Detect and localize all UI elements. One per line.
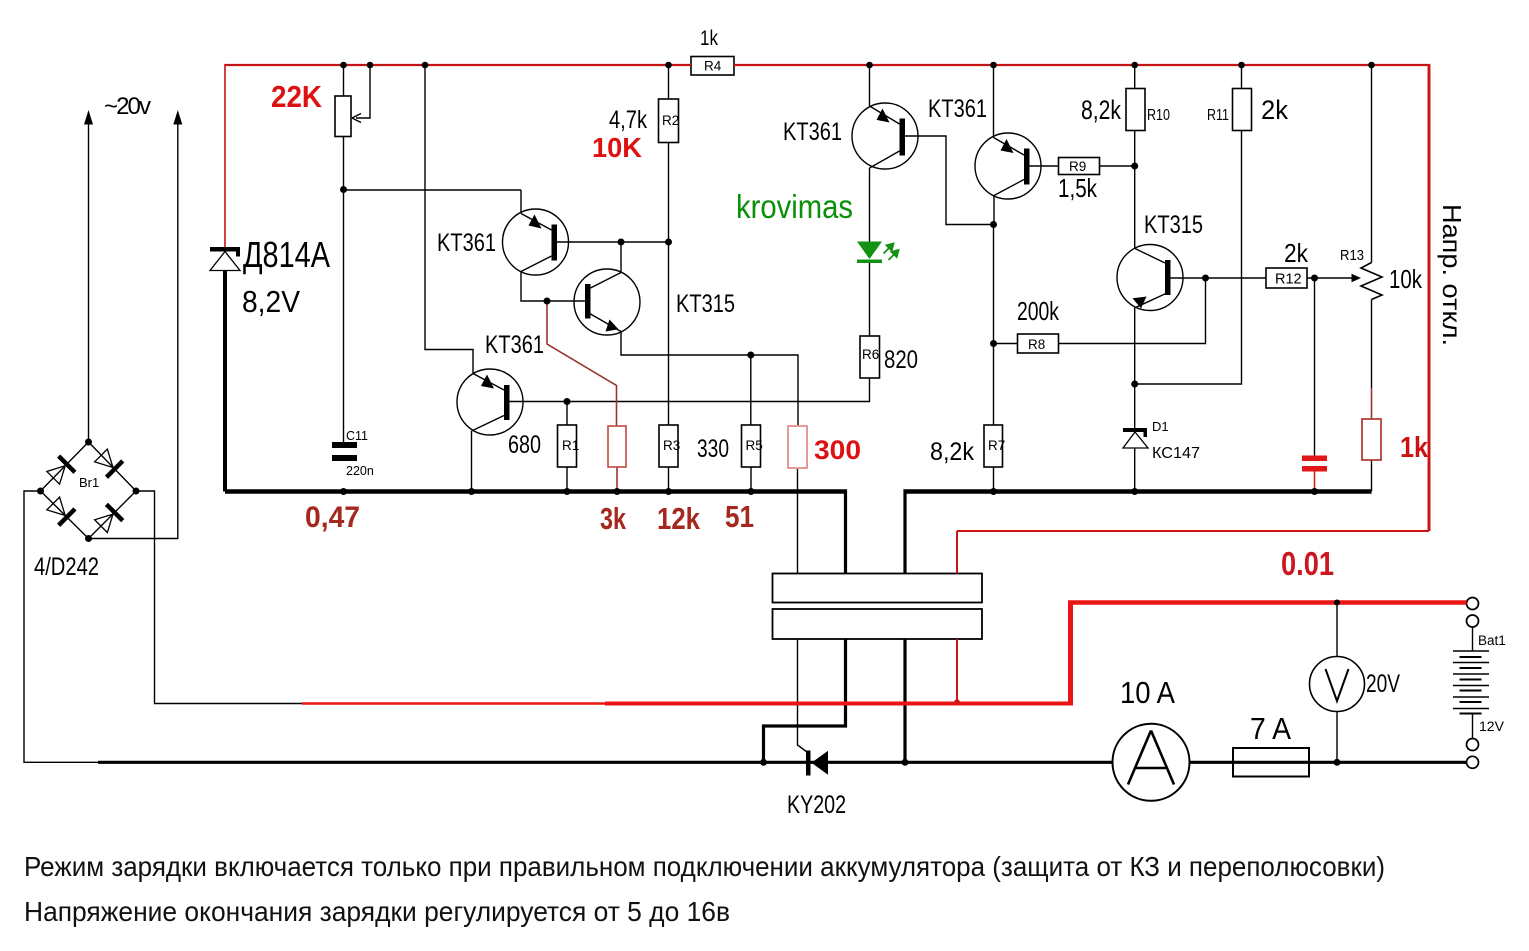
svg-text:R11: R11 xyxy=(1207,107,1229,124)
svg-text:R13: R13 xyxy=(1340,247,1364,264)
svg-text:D1: D1 xyxy=(1152,419,1169,434)
svg-text:0.01: 0.01 xyxy=(1281,545,1334,582)
svg-text:Br1: Br1 xyxy=(79,475,99,490)
svg-text:C11: C11 xyxy=(346,429,368,443)
svg-text:4,7k: 4,7k xyxy=(609,106,647,134)
svg-text:~20v: ~20v xyxy=(104,93,151,120)
svg-text:300: 300 xyxy=(814,435,861,465)
svg-text:330: 330 xyxy=(697,435,729,463)
svg-text:Напр. откл.: Напр. откл. xyxy=(1437,204,1467,346)
svg-text:3k: 3k xyxy=(600,501,627,536)
svg-text:R12: R12 xyxy=(1275,272,1302,288)
svg-text:R3: R3 xyxy=(663,438,680,453)
svg-text:R4: R4 xyxy=(704,59,722,74)
svg-text:KT361: KT361 xyxy=(437,229,496,257)
svg-text:krovimas: krovimas xyxy=(736,188,853,225)
svg-text:Д814А: Д814А xyxy=(243,234,330,275)
svg-text:12V: 12V xyxy=(1479,718,1505,734)
svg-text:22K: 22K xyxy=(271,79,323,114)
svg-text:8,2V: 8,2V xyxy=(242,284,300,319)
svg-text:KT361: KT361 xyxy=(485,331,544,359)
svg-text:1,5k: 1,5k xyxy=(1058,173,1098,203)
svg-text:Bat1: Bat1 xyxy=(1478,633,1506,648)
svg-text:20V: 20V xyxy=(1366,670,1400,698)
svg-text:7 A: 7 A xyxy=(1250,711,1291,746)
svg-text:KT315: KT315 xyxy=(1144,211,1203,239)
svg-text:10K: 10K xyxy=(592,132,642,163)
svg-text:8,2k: 8,2k xyxy=(1081,95,1121,125)
svg-text:2k: 2k xyxy=(1261,95,1288,125)
svg-text:51: 51 xyxy=(725,499,754,534)
svg-text:R10: R10 xyxy=(1147,107,1170,124)
svg-text:Напряжение окончания зарядки р: Напряжение окончания зарядки регулируетс… xyxy=(24,896,730,927)
svg-text:КС147: КС147 xyxy=(1152,445,1200,462)
svg-text:1k: 1k xyxy=(1400,432,1429,464)
svg-text:0,47: 0,47 xyxy=(305,501,360,534)
svg-text:R1: R1 xyxy=(562,438,579,453)
svg-text:R5: R5 xyxy=(746,438,763,453)
svg-text:KT361: KT361 xyxy=(783,118,842,146)
svg-text:10k: 10k xyxy=(1389,264,1423,294)
svg-text:12k: 12k xyxy=(657,501,701,536)
svg-text:KY202: KY202 xyxy=(787,791,846,819)
svg-text:220n: 220n xyxy=(346,464,374,478)
svg-text:R7: R7 xyxy=(988,438,1005,453)
svg-text:R2: R2 xyxy=(662,113,679,128)
svg-text:4/D242: 4/D242 xyxy=(34,553,99,581)
svg-text:200k: 200k xyxy=(1017,296,1060,326)
svg-text:KT361: KT361 xyxy=(928,95,987,123)
svg-text:Режим зарядки включается тольк: Режим зарядки включается только при прав… xyxy=(24,851,1385,882)
svg-text:R9: R9 xyxy=(1069,159,1086,174)
svg-text:10 A: 10 A xyxy=(1120,675,1175,710)
svg-text:1k: 1k xyxy=(700,27,718,50)
svg-text:R8: R8 xyxy=(1028,337,1045,352)
svg-text:KT315: KT315 xyxy=(676,290,735,318)
svg-text:2k: 2k xyxy=(1284,238,1309,268)
svg-text:680: 680 xyxy=(508,431,541,459)
svg-text:820: 820 xyxy=(884,346,918,374)
svg-text:8,2k: 8,2k xyxy=(930,438,974,466)
svg-text:R6: R6 xyxy=(862,347,879,362)
